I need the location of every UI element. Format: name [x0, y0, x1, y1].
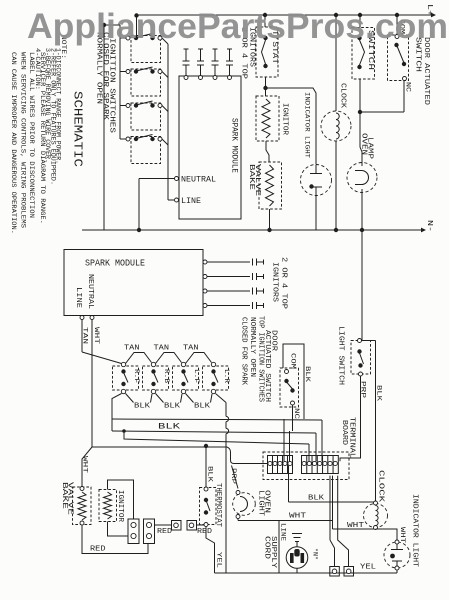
svg-text:NC: NC — [292, 408, 300, 419]
svg-text:BLK: BLK — [164, 403, 181, 411]
svg-text:WHT: WHT — [347, 522, 365, 530]
svg-text:THERMOSTAT: THERMOSTAT — [214, 483, 222, 527]
svg-text:BLK: BLK — [308, 495, 325, 503]
svg-text:CAN CAUSE IMPROPER AND DANGERO: CAN CAUSE IMPROPER AND DANGEROUS OPERATI… — [9, 52, 17, 234]
svg-text:RED: RED — [157, 528, 173, 536]
svg-text:CLOCK: CLOCK — [339, 83, 347, 109]
svg-text:BLK: BLK — [303, 366, 311, 383]
svg-text:IGNITOR: IGNITOR — [116, 490, 124, 523]
svg-text:LIGHT SWITCH: LIGHT SWITCH — [337, 326, 345, 385]
svg-text:2 OR 4 TOP: 2 OR 4 TOP — [279, 257, 287, 309]
svg-text:WHEN SERVICING CONTROLS, WIRIN: WHEN SERVICING CONTROLS, WIRING PROBLEMS — [19, 52, 27, 228]
svg-text:R.B: R.B — [163, 369, 170, 383]
svg-text:N-: N- — [425, 220, 433, 232]
svg-text:BLK: BLK — [206, 466, 214, 483]
svg-text:LAMP: LAMP — [366, 137, 374, 159]
svg-text:AppliancePartsPros.com: AppliancePartsPros.com — [27, 7, 448, 46]
svg-text:YEL: YEL — [215, 552, 223, 568]
svg-text:NORMALLY OPEN: NORMALLY OPEN — [248, 317, 256, 377]
svg-text:PRP: PRP — [229, 468, 237, 484]
svg-text:TAN: TAN — [124, 345, 140, 353]
svg-text:LINE: LINE — [181, 198, 201, 206]
svg-text:RED: RED — [197, 528, 213, 536]
svg-text:IGNITION SWITCHES: IGNITION SWITCHES — [108, 38, 116, 133]
svg-text:R.F: R.F — [133, 369, 140, 383]
svg-text:WHT: WHT — [289, 512, 307, 520]
svg-text:LINE: LINE — [74, 287, 82, 309]
svg-text:LABEL ALL WIRES PRIOR TO DISCO: LABEL ALL WIRES PRIOR TO DISCONNECTION — [27, 52, 35, 218]
svg-text:IGNITOR: IGNITOR — [281, 103, 289, 136]
svg-text:CLOCK: CLOCK — [377, 470, 385, 503]
svg-text:IGNITORS: IGNITORS — [271, 262, 279, 302]
svg-text:NEUTRAL: NEUTRAL — [181, 177, 216, 185]
svg-text:TAN: TAN — [183, 345, 199, 353]
svg-text:NEUTRAL: NEUTRAL — [86, 274, 94, 310]
svg-text:CORD: CORD — [263, 536, 271, 559]
svg-text:L.F: L.F — [193, 369, 200, 383]
svg-text:SPARK MODULE: SPARK MODULE — [229, 118, 238, 173]
svg-text:WHT: WHT — [81, 456, 89, 473]
svg-text:ACTUATED SWITCH: ACTUATED SWITCH — [263, 330, 271, 402]
svg-text:INDICATOR LIGHT: INDICATOR LIGHT — [411, 494, 419, 567]
svg-text:BOARD: BOARD — [340, 420, 348, 445]
svg-text:L.R: L.R — [223, 369, 230, 383]
svg-text:VALVE: VALVE — [65, 482, 73, 515]
svg-text:SPARK MODULE: SPARK MODULE — [85, 259, 145, 269]
svg-text:COM: COM — [289, 353, 297, 369]
svg-text:SCHEMATIC: SCHEMATIC — [70, 91, 84, 167]
svg-text:LINE: LINE — [279, 523, 287, 541]
svg-text:*N*: *N* — [311, 548, 319, 560]
svg-text:DOOR ACTUATED: DOOR ACTUATED — [422, 37, 430, 105]
svg-text:LIGHT: LIGHT — [257, 490, 265, 516]
svg-text:YEL: YEL — [360, 564, 377, 572]
svg-text:BLK: BLK — [158, 423, 180, 432]
svg-text:BLK: BLK — [375, 385, 383, 402]
svg-text:BLK: BLK — [134, 403, 151, 411]
svg-text:TAN: TAN — [154, 345, 170, 353]
svg-text:INDICATOR LIGHT: INDICATOR LIGHT — [303, 92, 311, 158]
svg-text:PRP: PRP — [359, 381, 367, 398]
svg-text:CLOSED FOR SPARK: CLOSED FOR SPARK — [240, 317, 248, 386]
svg-text:RED: RED — [90, 546, 106, 554]
svg-text:BLK: BLK — [194, 403, 211, 411]
svg-text:WHT: WHT — [92, 327, 100, 344]
svg-text:WHT: WHT — [398, 527, 406, 543]
svg-text:VALVE: VALVE — [253, 164, 261, 196]
svg-text:NC: NC — [404, 82, 412, 92]
